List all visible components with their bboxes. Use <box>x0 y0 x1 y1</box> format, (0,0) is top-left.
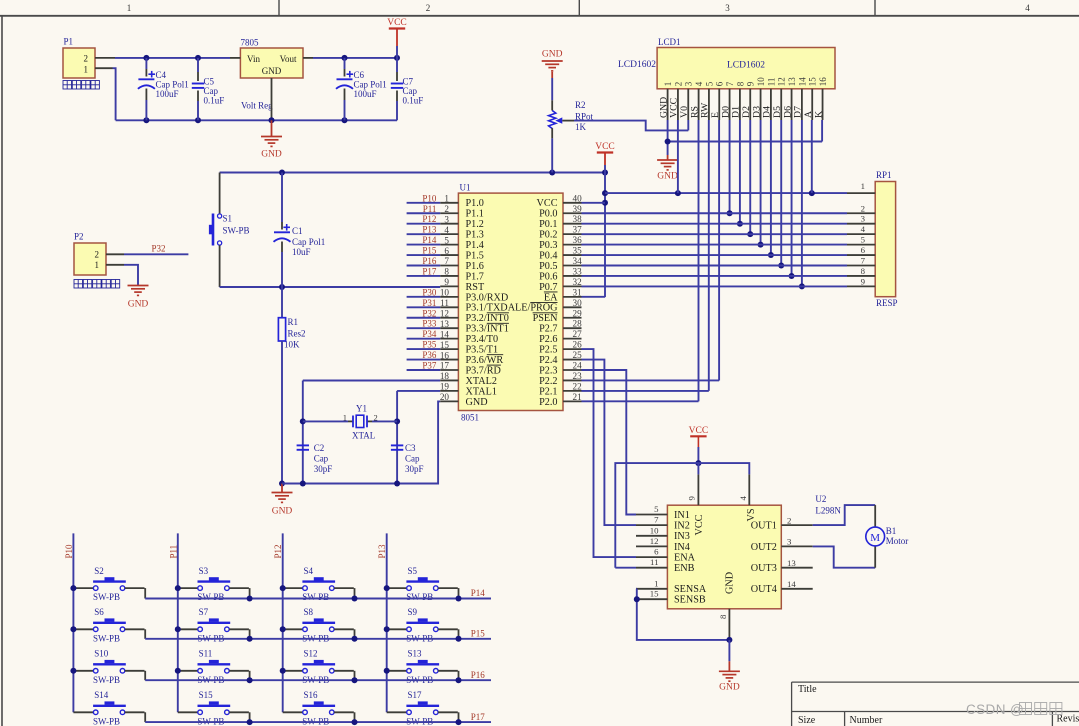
svg-text:L298N: L298N <box>815 506 841 516</box>
svg-text:P3.6/WR: P3.6/WR <box>466 355 504 366</box>
wire SENSA SENSB to ground <box>635 588 638 590</box>
svg-text:S14: S14 <box>94 690 109 700</box>
node S2 column junction <box>70 585 76 591</box>
svg-text:7: 7 <box>725 81 735 86</box>
IC U2 L298N body <box>667 505 781 609</box>
svg-text:S3: S3 <box>199 566 209 576</box>
switch S1 SW-PB <box>219 173 221 214</box>
svg-text:P1: P1 <box>64 37 74 47</box>
svg-text:22: 22 <box>573 381 583 391</box>
wire LCD pin2 down <box>677 120 679 193</box>
pin 7805 Vin <box>230 57 240 59</box>
svg-text:P2: P2 <box>74 232 84 242</box>
svg-text:P17: P17 <box>422 266 437 276</box>
wire P2.0 row <box>582 400 699 402</box>
svg-text:P15: P15 <box>471 629 486 639</box>
svg-text:4: 4 <box>861 224 866 234</box>
svg-text:P30: P30 <box>422 287 437 297</box>
wires P0.0-P0.7 bus <box>582 212 848 214</box>
wire P32 net <box>124 253 188 255</box>
svg-text:PSEN: PSEN <box>533 313 559 324</box>
switch S11 SW-PB <box>178 670 198 672</box>
svg-text:9: 9 <box>746 81 756 86</box>
switch S7 SW-PB <box>178 628 198 630</box>
svg-text:40: 40 <box>573 193 583 203</box>
svg-text:37: 37 <box>573 225 583 235</box>
svg-text:P3.5/T1: P3.5/T1 <box>466 345 499 356</box>
node S5 column junction <box>384 585 390 591</box>
svg-text:10uF: 10uF <box>292 247 311 257</box>
svg-text:P32: P32 <box>422 308 436 318</box>
svg-text:EA: EA <box>544 292 558 303</box>
node S7 column junction <box>175 626 181 632</box>
node C4 top <box>143 55 149 61</box>
svg-text:GND: GND <box>466 397 488 408</box>
node S4 column junction <box>280 585 286 591</box>
svg-text:OUT3: OUT3 <box>751 563 777 574</box>
svg-text:P12: P12 <box>422 214 436 224</box>
svg-text:30pF: 30pF <box>314 464 333 474</box>
wire P2.2 row <box>582 379 720 381</box>
pin 7805 Vout <box>303 57 313 59</box>
capacitor C1 <box>281 173 283 223</box>
svg-text:Vout: Vout <box>280 54 297 64</box>
svg-text:P14: P14 <box>422 235 437 245</box>
wire S8 output jog <box>334 628 354 630</box>
svg-text:3: 3 <box>861 214 866 224</box>
wires P30-P37 to U1 <box>407 296 441 298</box>
wires P10-P17 to U1 <box>407 202 441 204</box>
svg-text:IN3: IN3 <box>674 531 690 542</box>
svg-text:S6: S6 <box>94 607 104 617</box>
svg-text:GND: GND <box>272 507 293 517</box>
svg-text:GND: GND <box>719 683 740 693</box>
svg-text:S10: S10 <box>94 649 109 659</box>
switch S15 SW-PB <box>178 711 198 713</box>
svg-text:P1.0: P1.0 <box>466 198 484 209</box>
capacitor C5 <box>197 58 199 72</box>
svg-text:1: 1 <box>127 3 132 13</box>
svg-text:S4: S4 <box>304 566 314 576</box>
svg-text:11: 11 <box>650 557 658 567</box>
svg-text:R2: R2 <box>575 100 586 110</box>
svg-text:RST: RST <box>466 282 485 293</box>
node VCC rail corner <box>394 55 400 61</box>
svg-text:P12: P12 <box>273 544 283 558</box>
wire row bus P14 <box>145 598 491 600</box>
svg-text:S17: S17 <box>408 690 423 700</box>
svg-text:4: 4 <box>1025 3 1030 13</box>
svg-text:9: 9 <box>861 276 866 286</box>
svg-text:23: 23 <box>573 371 583 381</box>
wire S13 output jog <box>438 670 458 672</box>
svg-text:CSDN @: CSDN @ <box>966 702 1024 717</box>
svg-text:SW-PB: SW-PB <box>406 592 433 602</box>
svg-text:P2.2: P2.2 <box>539 376 557 387</box>
wire S2 output jog <box>125 587 145 589</box>
wire xtal ground bus <box>282 401 440 483</box>
svg-text:1: 1 <box>84 64 89 74</box>
svg-text:P32: P32 <box>151 244 165 254</box>
svg-text:Cap: Cap <box>204 86 219 96</box>
node SENSB junction <box>634 596 640 602</box>
switch S6 SW-PB <box>73 628 93 630</box>
switch S9 SW-PB <box>387 628 407 630</box>
svg-text:P0.1: P0.1 <box>539 219 557 230</box>
svg-text:U2: U2 <box>815 494 826 504</box>
node VCC U1 pin40 <box>602 200 608 206</box>
wire P2 pin1 to ground <box>124 265 138 285</box>
LCD pin stubs <box>667 89 669 120</box>
wire S15 output jog <box>229 711 249 713</box>
svg-text:P16: P16 <box>422 256 437 266</box>
node C3 bottom <box>394 481 400 487</box>
svg-text:1: 1 <box>654 578 658 588</box>
svg-text:GND: GND <box>128 300 149 310</box>
node S8 column junction <box>280 626 286 632</box>
svg-text:10: 10 <box>650 525 659 535</box>
svg-text:2: 2 <box>84 53 89 63</box>
ground below P2 <box>128 285 149 287</box>
svg-text:Motor: Motor <box>886 536 909 546</box>
pin P2-2 <box>106 253 124 255</box>
svg-text:P0.0: P0.0 <box>539 209 557 220</box>
svg-text:2: 2 <box>374 413 378 423</box>
wire S3 output jog <box>229 587 249 589</box>
svg-text:Cap: Cap <box>405 454 420 464</box>
svg-text:35: 35 <box>573 246 583 256</box>
node C6 bottom <box>342 117 348 123</box>
svg-text:S15: S15 <box>199 690 214 700</box>
svg-text:ENB: ENB <box>674 563 695 574</box>
svg-text:P2.5: P2.5 <box>539 345 557 356</box>
svg-text:P2.6: P2.6 <box>539 334 557 345</box>
svg-text:P1.4: P1.4 <box>466 240 484 251</box>
svg-text:ALE/PROG: ALE/PROG <box>508 303 558 314</box>
svg-text:SENSA: SENSA <box>674 584 707 595</box>
node S11 column junction <box>175 668 181 674</box>
svg-text:S12: S12 <box>304 649 318 659</box>
svg-text:SW-PB: SW-PB <box>93 633 120 643</box>
svg-text:C1: C1 <box>292 226 303 236</box>
svg-text:32: 32 <box>573 277 583 287</box>
pin P2-1 <box>106 264 124 266</box>
svg-text:P0.3: P0.3 <box>539 240 557 251</box>
node VCC vertical <box>602 170 608 176</box>
svg-text:6: 6 <box>715 81 725 86</box>
wire VCC to U2 pin9 <box>697 463 699 474</box>
wire row bus P17 <box>145 721 491 723</box>
node LCD VCC pin2 <box>675 190 681 196</box>
svg-text:29: 29 <box>573 308 583 318</box>
svg-text:C4: C4 <box>156 70 167 80</box>
wire S10 output jog <box>125 670 145 672</box>
svg-text:P1.6: P1.6 <box>466 261 484 272</box>
switch S4 SW-PB <box>283 587 303 589</box>
svg-text:3: 3 <box>725 3 730 13</box>
svg-text:P14: P14 <box>471 588 486 598</box>
resistor R1 Res2 10K <box>281 287 283 318</box>
svg-text:SENSB: SENSB <box>674 595 706 606</box>
svg-text:Cap: Cap <box>403 86 418 96</box>
svg-text:P16: P16 <box>471 670 486 680</box>
ground above R2 <box>542 60 563 62</box>
svg-text:P3.3/INT1: P3.3/INT1 <box>466 324 509 335</box>
wire LCD V0 down <box>687 120 689 130</box>
svg-text:24: 24 <box>573 361 583 371</box>
wire RST net <box>220 286 441 288</box>
svg-text:S8: S8 <box>304 607 314 617</box>
svg-text:7: 7 <box>861 256 866 266</box>
wire S11 output jog <box>229 670 249 672</box>
wire S9 output jog <box>438 628 458 630</box>
svg-text:12: 12 <box>777 77 787 86</box>
svg-text:100uF: 100uF <box>354 89 377 99</box>
wire P2.5 to ENA <box>582 349 637 557</box>
switch S12 SW-PB <box>283 670 303 672</box>
svg-text:P1.2: P1.2 <box>466 219 484 230</box>
svg-text:P3.2/INT0: P3.2/INT0 <box>466 313 509 324</box>
ground below 7805 <box>271 120 273 136</box>
switch S10 SW-PB <box>73 670 93 672</box>
svg-text:LCD1602: LCD1602 <box>618 60 656 70</box>
connector P2 <box>74 243 106 275</box>
svg-text:15: 15 <box>808 77 818 87</box>
switch S3 SW-PB <box>178 587 198 589</box>
node Y1 pin1 <box>300 418 306 424</box>
wire S6 output jog <box>125 628 145 630</box>
svg-text:P0.5: P0.5 <box>539 261 557 272</box>
motor B1 <box>874 505 876 527</box>
switch S2 SW-PB <box>73 587 93 589</box>
svg-text:P13: P13 <box>377 544 387 559</box>
node S13 column junction <box>384 668 390 674</box>
svg-text:30: 30 <box>573 298 583 308</box>
svg-text:U1: U1 <box>460 183 471 193</box>
svg-text:S16: S16 <box>304 690 319 700</box>
svg-text:4: 4 <box>694 81 704 86</box>
U1 left pin stubs <box>440 202 458 204</box>
svg-text:IN1: IN1 <box>674 510 690 521</box>
svg-text:14: 14 <box>787 579 796 589</box>
svg-text:Volt Reg: Volt Reg <box>241 101 273 111</box>
potentiometer R2 RPot 1K <box>551 78 553 100</box>
svg-text:C7: C7 <box>403 77 414 87</box>
svg-text:GND: GND <box>725 572 736 594</box>
wire VCC vertical to U1 pin40 and EA <box>604 165 606 297</box>
svg-text:P33: P33 <box>422 319 437 329</box>
svg-text:Cap: Cap <box>314 454 329 464</box>
svg-text:Cap Pol1: Cap Pol1 <box>156 80 189 90</box>
svg-text:14: 14 <box>797 77 807 87</box>
node LCD A pin15 <box>809 190 815 196</box>
svg-text:GND: GND <box>657 172 678 182</box>
svg-text:33: 33 <box>573 266 583 276</box>
ground below R1 <box>281 484 283 493</box>
svg-text:XTAL: XTAL <box>352 431 375 441</box>
wire LCD GND net <box>667 120 669 155</box>
node S6 column junction <box>70 626 76 632</box>
svg-text:13: 13 <box>787 77 797 87</box>
svg-text:0.1uF: 0.1uF <box>403 96 424 106</box>
svg-text:8: 8 <box>718 614 728 619</box>
svg-text:GND: GND <box>262 66 282 76</box>
power VCC mid <box>597 151 613 153</box>
wire EA to VCC <box>582 296 606 298</box>
node S12 column junction <box>280 668 286 674</box>
node U2 GND pin8 <box>726 637 732 643</box>
svg-text:2: 2 <box>861 203 865 213</box>
svg-text:VCC: VCC <box>387 18 407 28</box>
svg-text:S13: S13 <box>408 649 423 659</box>
wire LCD RW to P2.1 <box>708 120 710 391</box>
title block <box>792 682 1079 726</box>
svg-text:S2: S2 <box>94 566 104 576</box>
svg-text:S7: S7 <box>199 607 209 617</box>
node C1-R1 on RST <box>279 284 285 290</box>
svg-text:LCD1602: LCD1602 <box>727 61 765 71</box>
node VCC LCD rail <box>602 190 608 196</box>
wire S7 output jog <box>229 628 249 630</box>
node S9 column junction <box>384 626 390 632</box>
switch S13 SW-PB <box>387 670 407 672</box>
wire S17 output jog <box>438 711 458 713</box>
power VCC at U2 <box>690 435 706 437</box>
svg-text:GND: GND <box>261 150 282 160</box>
svg-text:2: 2 <box>787 515 791 525</box>
svg-text:P36: P36 <box>422 350 437 360</box>
svg-text:ENA: ENA <box>674 553 696 564</box>
svg-text:VCC: VCC <box>689 426 709 436</box>
svg-text:IN4: IN4 <box>674 542 690 553</box>
svg-text:VCC: VCC <box>537 198 558 209</box>
svg-text:P17: P17 <box>471 712 486 722</box>
svg-text:P1.7: P1.7 <box>466 271 484 282</box>
svg-text:XTAL2: XTAL2 <box>466 376 497 387</box>
wire row bus P16 <box>145 679 491 681</box>
node C2 bottom <box>300 481 306 487</box>
svg-text:2: 2 <box>426 3 431 13</box>
svg-text:1K: 1K <box>575 122 587 132</box>
svg-text:P13: P13 <box>422 225 437 235</box>
svg-text:RESP: RESP <box>876 298 898 308</box>
svg-text:P0.2: P0.2 <box>539 230 557 241</box>
svg-text:39: 39 <box>573 204 583 214</box>
svg-text:P35: P35 <box>422 340 437 350</box>
svg-text:SW-PB: SW-PB <box>197 592 224 602</box>
svg-text:C3: C3 <box>405 443 416 453</box>
svg-text:VS: VS <box>746 508 757 521</box>
svg-text:P3.4/T0: P3.4/T0 <box>466 334 499 345</box>
svg-text:SW-PB: SW-PB <box>93 592 120 602</box>
svg-text:S5: S5 <box>408 566 418 576</box>
node LCD pin1 gnd <box>665 139 671 145</box>
node C6 top <box>342 55 348 61</box>
pin 7805 GND <box>271 78 273 120</box>
svg-text:P10: P10 <box>64 544 74 559</box>
svg-text:S1: S1 <box>223 214 233 224</box>
node 7805 GND <box>269 117 275 123</box>
svg-text:8: 8 <box>735 81 745 86</box>
svg-text:K: K <box>813 111 824 118</box>
wire S14 output jog <box>125 711 145 713</box>
capacitor C7 <box>396 46 398 72</box>
svg-text:16: 16 <box>818 77 828 87</box>
svg-text:C2: C2 <box>314 443 325 453</box>
node VS VCC junction <box>695 460 701 466</box>
wire P1 pin1 down to ground rail <box>113 68 116 120</box>
svg-text:XTAL1: XTAL1 <box>466 386 497 397</box>
wire LCD pin15 down <box>811 120 813 193</box>
svg-text:Title: Title <box>798 684 817 695</box>
wire P2.1 row <box>582 390 709 392</box>
svg-text:Vin: Vin <box>247 54 260 64</box>
svg-text:1: 1 <box>663 82 673 87</box>
svg-text:RPot: RPot <box>575 112 594 122</box>
svg-text:2: 2 <box>95 249 100 259</box>
wire S5 output jog <box>438 587 458 589</box>
svg-text:P3.7/RD: P3.7/RD <box>466 365 501 376</box>
wire VCC U1 pin40 <box>582 202 606 204</box>
svg-text:1: 1 <box>343 413 347 423</box>
svg-text:R1: R1 <box>288 317 299 327</box>
LCD connector LCD1 body <box>657 48 835 89</box>
svg-text:IN2: IN2 <box>674 521 690 532</box>
svg-text:6: 6 <box>861 245 866 255</box>
svg-text:SW-PB: SW-PB <box>223 226 250 236</box>
svg-text:30pF: 30pF <box>405 464 424 474</box>
wire S16 output jog <box>334 711 354 713</box>
capacitor C4 <box>145 58 147 69</box>
svg-text:OUT2: OUT2 <box>751 542 777 553</box>
svg-text:P10: P10 <box>422 193 437 203</box>
wire R2 wiper to LCD V0 <box>562 120 574 122</box>
ground rail wire <box>116 119 397 121</box>
ground below U2 <box>728 640 730 661</box>
svg-text:1: 1 <box>95 260 100 270</box>
svg-text:3: 3 <box>684 81 694 86</box>
svg-text:P2.4: P2.4 <box>539 355 557 366</box>
wire VCC rail to RP1 pin1 <box>605 192 847 194</box>
svg-text:8: 8 <box>861 266 866 276</box>
U2 top pins 9 and 4 <box>697 474 699 505</box>
svg-text:25: 25 <box>573 350 583 360</box>
svg-text:P2.1: P2.1 <box>539 386 557 397</box>
svg-text:1: 1 <box>861 181 865 191</box>
svg-text:5: 5 <box>654 504 659 514</box>
svg-text:P3.0/RXD: P3.0/RXD <box>466 292 509 303</box>
svg-text:Size: Size <box>798 715 816 726</box>
svg-text:38: 38 <box>573 214 583 224</box>
svg-text:Y1: Y1 <box>356 404 367 414</box>
svg-text:P2.7: P2.7 <box>539 324 557 335</box>
svg-text:8051: 8051 <box>461 413 479 423</box>
svg-text:OUT4: OUT4 <box>751 584 777 595</box>
svg-text:7: 7 <box>654 515 659 525</box>
nodes D0-D7 junctions <box>727 210 733 216</box>
svg-text:36: 36 <box>573 235 583 245</box>
wire XTAL2 branch <box>303 380 440 382</box>
svg-text:B1: B1 <box>886 526 897 536</box>
RP1 pin stubs <box>847 192 875 194</box>
node C1 top <box>279 170 285 176</box>
wire row bus P15 <box>145 638 491 640</box>
node S3 column junction <box>175 585 181 591</box>
switch S5 SW-PB <box>387 587 407 589</box>
svg-text:Cap Pol1: Cap Pol1 <box>354 80 387 90</box>
wire 7805 Vout to VCC <box>313 57 397 59</box>
wire P1 pin2 to 7805 Vin <box>115 57 230 59</box>
